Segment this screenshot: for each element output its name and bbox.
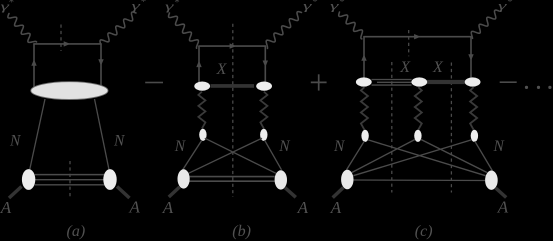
svg-text:A: A [330, 198, 342, 217]
right line blob to nucleon (a) [95, 99, 110, 170]
double line between nucleons upper (b) [190, 176, 275, 178]
X blob bar (b) [211, 84, 255, 88]
svg-text:A: A [0, 198, 12, 217]
arrow up on left leg (c) [361, 54, 366, 61]
svg-text:N: N [113, 133, 126, 150]
nucleon blob left (a) [22, 169, 35, 190]
svg-text:γ: γ [303, 0, 312, 13]
svg-text:*: * [339, 0, 345, 8]
svg-text:X: X [399, 59, 411, 76]
nucleon blob right (a) [103, 169, 116, 190]
quark box top line (b) [199, 45, 265, 47]
quark box top line (a) [34, 43, 101, 45]
arrow right on top line (b) [230, 43, 237, 48]
cut dashed segment top (a) [60, 25, 62, 52]
pomeron zigzag mid (c) [415, 87, 422, 130]
diffractive vertex right (c) [465, 77, 481, 86]
svg-text:*: * [312, 0, 318, 8]
nucleon vertex right (b) [260, 129, 267, 141]
nucleon blob left (b) [178, 169, 190, 188]
triple nucleus lines (c) [372, 79, 412, 81]
svg-text:(b): (b) [232, 223, 251, 240]
quark box left leg (c) [363, 37, 365, 79]
fan line Rbig-small2 (c) [421, 140, 487, 173]
svg-text:A: A [162, 198, 174, 217]
nucleon vertex left (b) [199, 129, 206, 141]
fan line Lbig-Lsmall (b) [183, 140, 202, 169]
minus sign right [500, 81, 517, 83]
svg-text:A: A [297, 198, 309, 217]
A leg left (a) [9, 187, 22, 199]
pomeron zigzag left (c) [361, 87, 368, 130]
A leg right (b) [285, 188, 296, 198]
pomeron zigzag right (c) [470, 87, 477, 130]
arrow down on right leg (c) [468, 54, 473, 61]
X blob bar (c) [427, 80, 465, 84]
cut dashed line right (c) [450, 63, 452, 193]
diffractive vertex left (b) [194, 82, 210, 91]
svg-text:γ: γ [330, 0, 339, 13]
svg-text:N: N [278, 138, 291, 155]
fan line Lbig-Rsmall (b) [189, 138, 263, 173]
arrow right on top line (a) [64, 41, 71, 46]
nucleon blob left (c) [341, 170, 353, 190]
quark box left leg (a) [33, 44, 35, 87]
svg-text:N: N [333, 138, 346, 155]
svg-text:N: N [9, 133, 22, 150]
fan line Lbig-small3 (c) [353, 140, 471, 176]
quark box right leg (b) [264, 46, 266, 83]
quark box right leg (a) [100, 44, 102, 86]
cut dashed segment bottom (a) [69, 161, 71, 197]
arrow up on left leg (a) [31, 59, 36, 66]
nucleon blob right (c) [485, 171, 498, 190]
svg-text:X: X [216, 61, 228, 78]
photon line gamma*-left (a) [8, 14, 37, 43]
svg-text:*: * [174, 0, 180, 9]
svg-text:γ: γ [498, 0, 507, 13]
svg-text:*: * [8, 0, 14, 9]
arrow down on right leg (a) [98, 59, 103, 66]
arrow up on left leg (b) [196, 61, 201, 68]
photon line gamma*-right (b) [266, 12, 301, 49]
arrow right on top line (c) [414, 34, 421, 39]
svg-text:*: * [507, 0, 513, 8]
cut dashed line left (c) [391, 62, 393, 193]
nucleon vertex right (c) [471, 130, 478, 142]
pomeron zigzag right (b) [260, 92, 267, 129]
photon line gamma*-right (a) [100, 12, 136, 43]
fan line Rbig-small3 (c) [475, 141, 493, 170]
nucleon blob right (b) [275, 170, 287, 189]
A leg right (c) [496, 188, 507, 198]
fan line Lbig-small1 (c) [347, 141, 365, 170]
fan line Rbig-Rsmall (b) [265, 140, 282, 170]
quark box right leg (c) [470, 37, 472, 79]
svg-text:γ: γ [132, 0, 141, 13]
diffractive vertex mid (c) [411, 77, 427, 86]
svg-text:A: A [497, 198, 509, 217]
spectator line between nucleons (c) [353, 179, 485, 182]
diffractive vertex right (b) [256, 82, 272, 91]
A leg left (c) [333, 188, 344, 198]
photon line gamma*-right (c) [471, 10, 499, 38]
photon line gamma*-left (b) [169, 13, 199, 48]
diffractive vertex left (c) [356, 77, 372, 86]
A leg right (a) [117, 187, 130, 199]
nucleon vertex left (c) [361, 130, 368, 142]
svg-text:A: A [129, 198, 141, 217]
cut dashed top segment (c) [408, 30, 410, 56]
quark box top line (c) [364, 36, 471, 38]
svg-text:*: * [140, 0, 146, 8]
double line between nucleons lower (b) [189, 180, 274, 182]
pomeron zigzag left (b) [198, 92, 205, 129]
svg-text:N: N [493, 138, 506, 155]
svg-text:(a): (a) [67, 223, 86, 240]
svg-text:(c): (c) [415, 223, 433, 240]
arrow down on right leg (b) [263, 61, 268, 68]
fan line Lbig-small2 (c) [352, 140, 415, 173]
fan line Rbig-small1 (c) [368, 140, 485, 176]
nucleon vertex mid (c) [414, 130, 421, 142]
svg-text:γ: γ [165, 0, 174, 13]
svg-text:X: X [432, 59, 444, 76]
ellipsis dots [525, 86, 552, 89]
plus sign [311, 74, 327, 90]
cut dashed line (b) [232, 24, 234, 197]
minus sign [145, 82, 163, 84]
big blob (a) [31, 82, 108, 100]
fan line Rbig-Lsmall (b) [205, 138, 276, 173]
quark box left leg (b) [198, 46, 200, 83]
photon line gamma*-left (c) [339, 12, 363, 39]
left line blob to nucleon (a) [30, 99, 45, 170]
A leg left (b) [169, 187, 180, 197]
triple nucleus lines (a) [35, 174, 105, 176]
svg-text:N: N [174, 138, 187, 155]
